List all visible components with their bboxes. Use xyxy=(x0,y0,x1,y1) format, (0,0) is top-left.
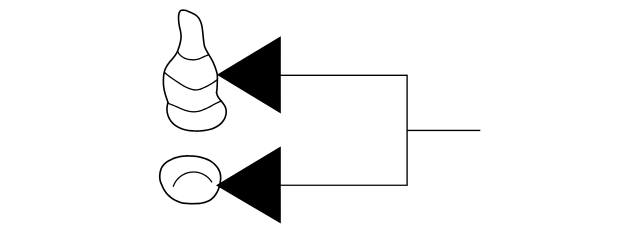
ear input icon outline xyxy=(160,156,221,204)
wire top xyxy=(281,74,408,76)
wire output xyxy=(407,129,480,131)
thumb band line 1 (fold below tip) xyxy=(178,51,209,59)
thumb input icon: tip lobe and right edge xyxy=(178,10,218,92)
top amplifier triangle xyxy=(217,36,281,113)
thumb band line 3 xyxy=(169,101,221,112)
thumb bottom lobe xyxy=(167,92,226,131)
ear inner arc xyxy=(173,172,211,186)
thumb band line 2 xyxy=(164,72,217,90)
thumb body left shoulder xyxy=(163,51,177,102)
bottom amplifier triangle xyxy=(216,146,281,223)
wire vertical join xyxy=(406,75,408,186)
wire bottom xyxy=(281,184,408,186)
